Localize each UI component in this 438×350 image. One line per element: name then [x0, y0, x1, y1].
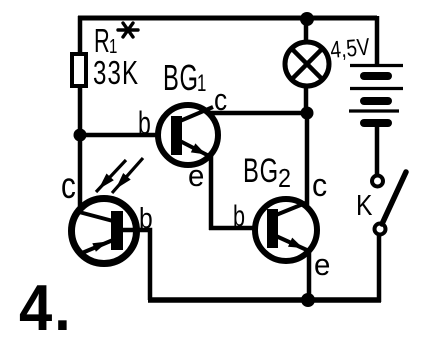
switch K bottom contact: [375, 224, 386, 235]
BG1 collector stroke: [180, 107, 213, 121]
top junction dot: [300, 12, 314, 26]
svg-text:1: 1: [197, 70, 206, 97]
svg-text:c: c: [61, 166, 76, 207]
switch K lever: [382, 172, 406, 224]
asterisk on R1: [118, 23, 138, 37]
svg-text:e: e: [188, 159, 204, 193]
wire top-left vertical to R1: [78, 16, 83, 55]
transistor BG2 body: [255, 199, 317, 261]
wire bottom rail: [148, 297, 381, 303]
wire node A to BG1 base: [78, 133, 159, 138]
resistor R1: [72, 54, 86, 86]
light arrow 1: [96, 160, 126, 192]
svg-text:BG: BG: [243, 152, 279, 190]
wire BG2 emitter to bottom rail: [307, 249, 312, 302]
svg-text:e: e: [314, 248, 330, 282]
BG2 base bar: [267, 209, 278, 248]
svg-text:1: 1: [109, 35, 117, 58]
lamp 4.5V: [285, 42, 329, 86]
label R1: [94, 22, 117, 59]
wire switch to bottom rail: [377, 235, 382, 302]
BG2 collector stroke: [276, 202, 308, 215]
wire BG1 emitter down: [209, 156, 214, 230]
transistor BG1 body: [158, 105, 218, 165]
svg-text:R: R: [94, 22, 110, 59]
wire lamp to node B: [304, 86, 309, 113]
switch K top contact: [372, 176, 383, 187]
wire top rail to battery: [375, 16, 380, 64]
label BG2: [243, 152, 291, 193]
BG2 emitter arrowhead: [288, 238, 303, 248]
wire top rail to lamp: [304, 18, 309, 44]
wire BG1 collector to node B: [208, 111, 307, 116]
svg-text:b: b: [138, 105, 151, 141]
wire node B to BG2 collector: [305, 110, 310, 205]
BG1 emitter arrowhead: [191, 143, 206, 154]
svg-text:K: K: [356, 189, 372, 221]
svg-text:4,5V: 4,5V: [329, 33, 371, 64]
wire R1 to node A: [78, 86, 83, 140]
phototransistor body: [72, 199, 137, 264]
svg-text:b: b: [233, 198, 245, 232]
phototransistor base bar: [111, 211, 123, 250]
svg-text:c: c: [312, 167, 327, 203]
wire to BG2 base: [209, 226, 257, 231]
light arrow 2: [112, 158, 143, 193]
bottom junction dot: [301, 293, 315, 307]
wire node A down to phototransistor collector: [78, 135, 83, 209]
phototransistor emitter arrowhead: [92, 242, 108, 252]
BG2 emitter stroke: [276, 236, 309, 251]
svg-text:2: 2: [278, 165, 291, 193]
svg-text:33K: 33K: [93, 55, 139, 92]
node A junction dot: [74, 129, 87, 142]
battery GB1: [349, 66, 403, 124]
phototransistor emitter stroke: [82, 240, 113, 253]
BG1 base bar: [171, 116, 182, 155]
wire battery to switch: [375, 127, 380, 175]
node B junction dot: [301, 107, 314, 120]
BG1 emitter stroke: [180, 141, 211, 157]
label BG1: [163, 58, 206, 98]
svg-text:BG: BG: [163, 58, 199, 98]
wire phototransistor base to bottom rail: [123, 230, 150, 300]
wire top rail: [78, 16, 377, 21]
phototransistor collector stroke: [79, 212, 113, 221]
svg-text:4.: 4.: [19, 272, 73, 345]
